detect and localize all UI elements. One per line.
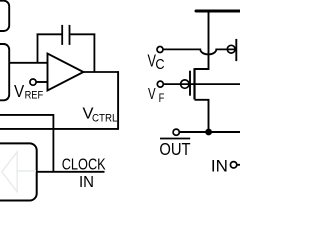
wire feedback top right (70, 33, 95, 35)
wire upper-left horizontal (to clock branch) (0, 114, 53, 116)
wire B2 to op-amp inverting input (9, 62, 47, 64)
wire VREF to op-amp (36, 81, 47, 83)
svg-text:F: F (159, 91, 165, 105)
faint wire inside B3 (17, 170, 36, 172)
capacitor C1 left plate (61, 25, 63, 45)
wire IN to right edge (237, 164, 240, 166)
transistor Q1 channel plate (193, 68, 195, 99)
wire feedback top left (37, 33, 62, 35)
transistor Q2 gate bubble (right edge) (227, 45, 235, 53)
label VCTRL (83, 106, 118, 125)
svg-text:REF: REF (25, 90, 44, 102)
svg-text:CTRL: CTRL (92, 113, 118, 125)
svg-text:OUT: OUT (159, 139, 190, 159)
buffer triangle (faint) inside B3 (2, 152, 17, 192)
transistor Q2 gate plate (235, 39, 237, 61)
wire VC with hop over vertical (163, 49, 236, 54)
wire VCTRL vertical (117, 71, 119, 129)
terminal VF circle (157, 81, 163, 87)
terminal OUT circle (173, 129, 179, 135)
op-amp U1 (48, 54, 84, 91)
svg-text:V: V (148, 86, 156, 103)
terminal VC circle (157, 47, 163, 53)
wire VCTRL horizontal to left edge (0, 128, 119, 130)
svg-text:V: V (14, 81, 24, 101)
wire rail down to Q1 drain (195, 11, 209, 69)
transistor Q1 gate plate (189, 71, 191, 96)
label VREF (14, 81, 43, 102)
block box B3 (bottom-left, clipped at left edge) (0, 143, 37, 200)
terminal IN circle (230, 162, 236, 168)
label VC (148, 51, 165, 73)
power rail (top right) (196, 10, 240, 13)
wire OUT to right edge (180, 131, 241, 133)
wire feedback left vertical (37, 34, 39, 64)
wire CLOCK IN (37, 171, 105, 173)
node junction dot (205, 129, 212, 136)
transistor Q1 gate bubble (181, 80, 189, 88)
wire clock branch vertical (52, 114, 54, 172)
svg-text:CLOCK: CLOCK (62, 157, 106, 174)
wire op-amp output (83, 71, 118, 73)
label OUT with overline (160, 138, 190, 140)
svg-text:C: C (155, 57, 164, 73)
svg-text:IN: IN (79, 174, 94, 191)
label VF (148, 86, 164, 105)
block box B2 (left, clipped at left edge) (0, 44, 9, 100)
capacitor C1 right plate (69, 25, 71, 45)
wire feedback right vertical (93, 34, 95, 73)
block box B1 (top-left, clipped at left edge) (0, 1, 9, 31)
terminal VREF circle (30, 79, 36, 85)
svg-text:IN: IN (211, 158, 228, 176)
wire VF gate line to right edge (163, 83, 240, 85)
wire Q1 source down to OUT node (195, 100, 209, 132)
